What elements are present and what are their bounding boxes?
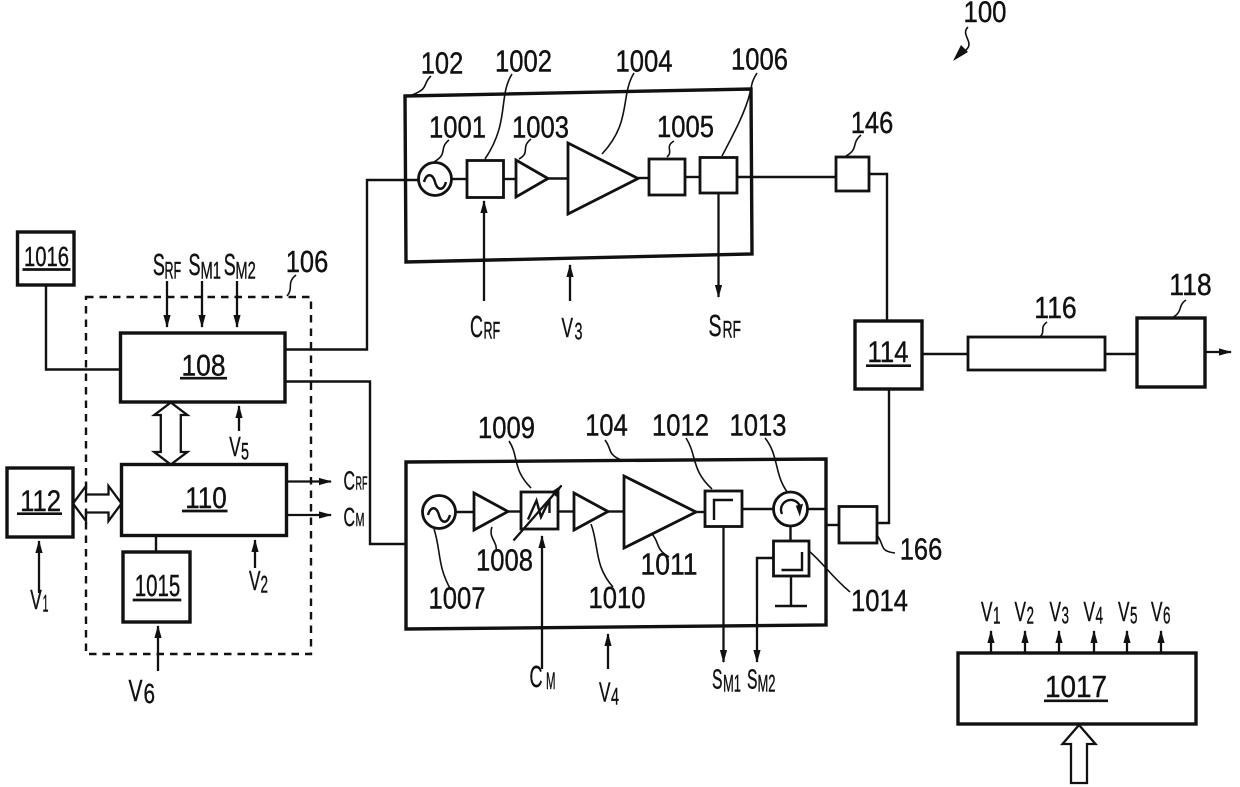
svg-text:V: V (1151, 596, 1163, 627)
svg-text:118: 118 (1169, 267, 1212, 302)
svg-text:1: 1 (43, 591, 49, 618)
svg-text:C: C (470, 309, 483, 344)
svg-text:1015: 1015 (135, 568, 181, 603)
svg-text:1012: 1012 (652, 408, 709, 443)
svg-text:M2: M2 (235, 258, 255, 285)
svg-text:1002: 1002 (495, 44, 552, 79)
svg-text:4: 4 (611, 684, 619, 711)
svg-text:1010: 1010 (589, 580, 646, 615)
svg-text:4: 4 (1096, 603, 1104, 630)
svg-text:100: 100 (964, 0, 1007, 29)
svg-text:1003: 1003 (512, 110, 569, 145)
svg-text:5: 5 (241, 439, 249, 466)
svg-text:3: 3 (1062, 603, 1070, 630)
svg-text:1: 1 (993, 603, 1001, 630)
svg-text:C: C (344, 466, 356, 496)
svg-text:V: V (1118, 596, 1130, 627)
svg-text:6: 6 (144, 678, 156, 709)
svg-text:1008: 1008 (476, 543, 533, 578)
svg-text:S: S (224, 247, 236, 282)
svg-text:RF: RF (484, 318, 501, 345)
svg-text:1013: 1013 (730, 408, 787, 443)
svg-text:1011: 1011 (641, 547, 698, 582)
svg-text:V: V (30, 584, 42, 615)
svg-text:1014: 1014 (851, 583, 908, 618)
svg-text:2: 2 (1027, 603, 1035, 630)
svg-text:104: 104 (585, 408, 628, 443)
svg-text:C: C (530, 659, 543, 694)
svg-text:V: V (562, 312, 574, 343)
svg-text:1009: 1009 (478, 410, 535, 445)
svg-text:1017: 1017 (1045, 669, 1107, 704)
svg-text:V: V (1050, 596, 1062, 627)
svg-text:1001: 1001 (429, 110, 486, 145)
svg-text:M2: M2 (758, 671, 776, 698)
svg-text:RF: RF (165, 258, 182, 285)
svg-text:166: 166 (900, 532, 943, 567)
svg-text:116: 116 (1034, 290, 1077, 325)
svg-text:114: 114 (868, 336, 909, 369)
svg-text:C: C (344, 502, 356, 532)
svg-text:1004: 1004 (616, 44, 673, 79)
svg-text:M: M (356, 509, 365, 530)
svg-text:V: V (249, 565, 261, 596)
svg-text:V: V (599, 677, 611, 708)
svg-text:M1: M1 (201, 258, 222, 285)
svg-text:2: 2 (261, 572, 269, 599)
svg-text:V: V (1084, 596, 1096, 627)
svg-text:S: S (747, 664, 758, 695)
svg-text:5: 5 (1130, 603, 1138, 630)
svg-text:1006: 1006 (731, 42, 788, 77)
svg-text:1007: 1007 (429, 581, 486, 616)
svg-text:M: M (546, 668, 556, 695)
svg-text:RF: RF (356, 473, 368, 494)
svg-text:V: V (129, 673, 143, 708)
svg-text:6: 6 (1163, 603, 1171, 630)
svg-text:S: S (712, 664, 723, 695)
svg-text:1016: 1016 (24, 241, 69, 272)
svg-text:102: 102 (421, 46, 464, 81)
svg-text:S: S (153, 247, 165, 282)
svg-text:V: V (1015, 596, 1027, 627)
svg-text:S: S (189, 247, 201, 282)
svg-text:S: S (709, 308, 722, 343)
svg-text:1005: 1005 (657, 109, 714, 144)
svg-text:146: 146 (851, 105, 894, 140)
svg-text:3: 3 (575, 319, 583, 346)
svg-text:RF: RF (723, 317, 742, 344)
svg-text:106: 106 (286, 244, 329, 279)
svg-text:M1: M1 (723, 671, 741, 698)
svg-text:V: V (981, 596, 993, 627)
svg-text:V: V (229, 431, 241, 462)
